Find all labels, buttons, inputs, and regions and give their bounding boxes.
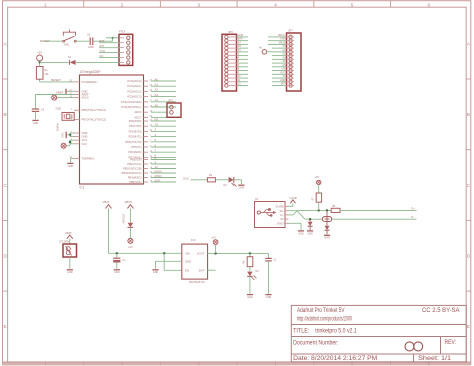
svg-text:B: B [3,112,6,118]
svg-text:RST: RST [281,71,286,74]
svg-text:5: 5 [351,362,353,366]
svg-text:ADC7: ADC7 [134,115,142,119]
svg-text:MIC5225-5V: MIC5225-5V [189,280,205,284]
svg-text:VUSB: VUSB [275,204,283,208]
svg-text:GND: GND [298,232,304,235]
svg-text:Date: 8/20/2014 2:16:27 PM: Date: 8/20/2014 2:16:27 PM [293,356,377,362]
svg-text:B: B [467,112,470,118]
svg-text:GND: GND [82,131,88,135]
svg-text:4: 4 [274,2,277,8]
svg-text:VIN: VIN [185,252,190,256]
svg-text:PB6(XTAL1/TOSC1): PB6(XTAL1/TOSC1) [82,108,107,112]
svg-text:PB1(OC1A): PB1(OC1A) [127,162,141,166]
svg-text:E: E [3,324,6,330]
svg-text:VOUT: VOUT [197,252,205,256]
svg-text:GND: GND [280,38,286,41]
svg-text:PB7(XTAL2/TOSC2): PB7(XTAL2/TOSC2) [82,118,107,122]
svg-text:MOSI: MOSI [155,169,162,173]
svg-text:RX: RX [155,117,159,121]
svg-text:VBUS: VBUS [125,200,133,204]
svg-text:5: 5 [351,2,354,8]
svg-text:ATmega328P: ATmega328P [80,70,101,74]
svg-text:3: 3 [197,2,200,8]
svg-text:A3: A3 [155,93,159,97]
svg-text:SW1: SW1 [64,44,70,47]
svg-text:6: 6 [427,2,430,8]
svg-text:A2: A2 [155,88,159,92]
svg-text:PB5(SCK): PB5(SCK) [129,180,142,184]
svg-text:VBAT+: VBAT+ [278,34,286,37]
svg-text:Document Number:: Document Number: [293,341,339,347]
svg-text:TX: TX [155,123,159,127]
svg-text:X1: X1 [255,197,259,201]
svg-text:GND: GND [239,187,245,190]
svg-text:IC1: IC1 [80,185,85,189]
svg-text:4: 4 [275,362,277,366]
svg-text:Adafruit Pro Trinket 5V: Adafruit Pro Trinket 5V [297,308,345,314]
svg-text:PD0(RXD): PD0(RXD) [129,119,142,123]
svg-text:6: 6 [428,362,430,366]
svg-text:A0: A0 [155,77,159,81]
svg-text:2: 2 [121,2,124,8]
svg-text:GND: GND [68,165,74,168]
svg-text:REV:: REV: [445,340,457,346]
svg-text:PC2(ADC2): PC2(ADC2) [127,89,141,93]
svg-text:BAT: BAT [281,83,286,86]
svg-text:1: 1 [44,362,46,366]
svg-text:PC4(ADC4/SDA): PC4(ADC4/SDA) [121,100,142,104]
svg-text:A1: A1 [155,83,159,87]
svg-text:PD4(XCK/T0): PD4(XCK/T0) [125,140,142,144]
svg-text:PB4(MISO): PB4(MISO) [128,176,142,180]
svg-text:PB3(MOSI/OC2): PB3(MOSI/OC2) [121,171,141,175]
svg-text:MBR120: MBR120 [122,214,125,224]
svg-text:GND: GND [266,296,272,299]
svg-text:3: 3 [198,362,200,366]
svg-text:GND: GND [62,132,65,138]
svg-text:+5V: +5V [315,175,320,179]
svg-text:GND: GND [56,108,62,111]
svg-text:VCC: VCC [82,138,88,142]
svg-text:PD6(AIN0): PD6(AIN0) [129,150,142,154]
svg-text:+5V: +5V [211,235,216,239]
svg-text:PC3(ADC3): PC3(ADC3) [127,95,141,99]
svg-text:PC0(ADC0): PC0(ADC0) [127,79,141,83]
svg-text:10: 10 [155,165,159,169]
svg-text:GND: GND [114,271,120,274]
svg-text:GND: GND [238,34,244,37]
svg-text:http://adafruit.com/products/2: http://adafruit.com/products/2000 [297,316,352,322]
svg-text:JP3: JP3 [168,99,173,103]
svg-text:GND: GND [33,122,39,125]
svg-text:16MHz: 16MHz [57,122,60,131]
svg-text:PB2(SS/OC1B): PB2(SS/OC1B) [123,167,142,171]
svg-text:+5V: +5V [128,245,133,249]
svg-text:VBAT: VBAT [103,200,110,204]
svg-text:2: 2 [121,362,123,366]
svg-text:C: C [3,183,7,189]
svg-text:JP6: JP6 [228,30,233,34]
svg-text:E: E [467,324,470,330]
svg-text:RXI: RXI [100,44,105,48]
svg-text:ADC6: ADC6 [134,110,142,114]
svg-text:+5V: +5V [37,51,42,55]
svg-text:A5: A5 [155,103,159,107]
svg-text:C: C [467,183,471,189]
svg-text:A4: A4 [155,98,159,102]
svg-text:RX: RX [238,45,242,48]
svg-text:SCK: SCK [183,176,189,180]
svg-text:BAT+: BAT+ [238,38,244,41]
svg-text:GND: GND [67,271,73,274]
svg-text:PC6(RESET): PC6(RESET) [82,80,98,84]
svg-text:GND: GND [153,271,159,274]
svg-text:GND: GND [307,232,313,235]
svg-text:PD1(TXD): PD1(TXD) [129,124,141,128]
svg-text:3V: 3V [282,75,285,78]
svg-text:1: 1 [44,2,47,8]
svg-text:IC3: IC3 [191,238,196,242]
svg-text:RESET: RESET [51,78,61,82]
svg-text:PD3(INT1): PD3(INT1) [129,135,142,139]
svg-text:GND: GND [324,237,330,240]
svg-text:GND: GND [88,46,94,49]
svg-text:TITLE:: TITLE: [293,329,310,335]
svg-text:PC1(ADC1): PC1(ADC1) [127,84,141,88]
svg-text:VUSB: VUSB [289,196,297,200]
svg-text:5V: 5V [282,68,285,71]
svg-text:JST 2PIN: JST 2PIN [59,241,69,244]
svg-text:D+: D+ [411,206,415,210]
svg-text:Sheet: 1/1: Sheet: 1/1 [418,356,452,362]
svg-text:5V0: 5V0 [100,39,105,43]
svg-text:FTDI: FTDI [119,30,125,34]
svg-text:VBAT: VBAT [65,231,72,235]
svg-text:EN: EN [185,269,189,273]
svg-text:GND: GND [185,260,191,264]
svg-text:GND: GND [82,135,88,139]
svg-text:JP7: JP7 [288,29,293,33]
svg-text:TXO: TXO [100,49,106,53]
svg-text:PB0(ICP): PB0(ICP) [130,158,141,162]
svg-text:D-: D- [411,215,414,219]
svg-text:THERMAL: THERMAL [82,156,95,160]
svg-text:CC 2.5 BY-SA: CC 2.5 BY-SA [422,308,460,314]
svg-text:GND: GND [277,221,285,225]
svg-text:SCK: SCK [155,178,161,182]
svg-text:GND: GND [247,296,253,299]
svg-text:PC5(ADC5/SCL): PC5(ADC5/SCL) [121,105,141,109]
svg-text:BYP: BYP [199,269,205,273]
svg-text:PD5(T1): PD5(T1) [131,145,141,149]
svg-text:TX: TX [238,49,241,52]
svg-text:NC: NC [100,54,104,58]
svg-text:AVCC: AVCC [82,96,89,100]
svg-text:VCC: VCC [82,142,88,146]
svg-text:trinketpro 5.0 v2.1: trinketpro 5.0 v2.1 [315,329,357,335]
svg-text:MISO: MISO [155,174,163,178]
svg-text:PD2(INT0): PD2(INT0) [129,129,142,133]
svg-text:GND: GND [280,79,286,82]
svg-text:VBUS: VBUS [279,41,286,44]
svg-text:D: D [467,254,471,260]
svg-text:AREF: AREF [56,91,64,95]
svg-text:D: D [3,254,7,260]
svg-text:5V: 5V [238,41,241,44]
